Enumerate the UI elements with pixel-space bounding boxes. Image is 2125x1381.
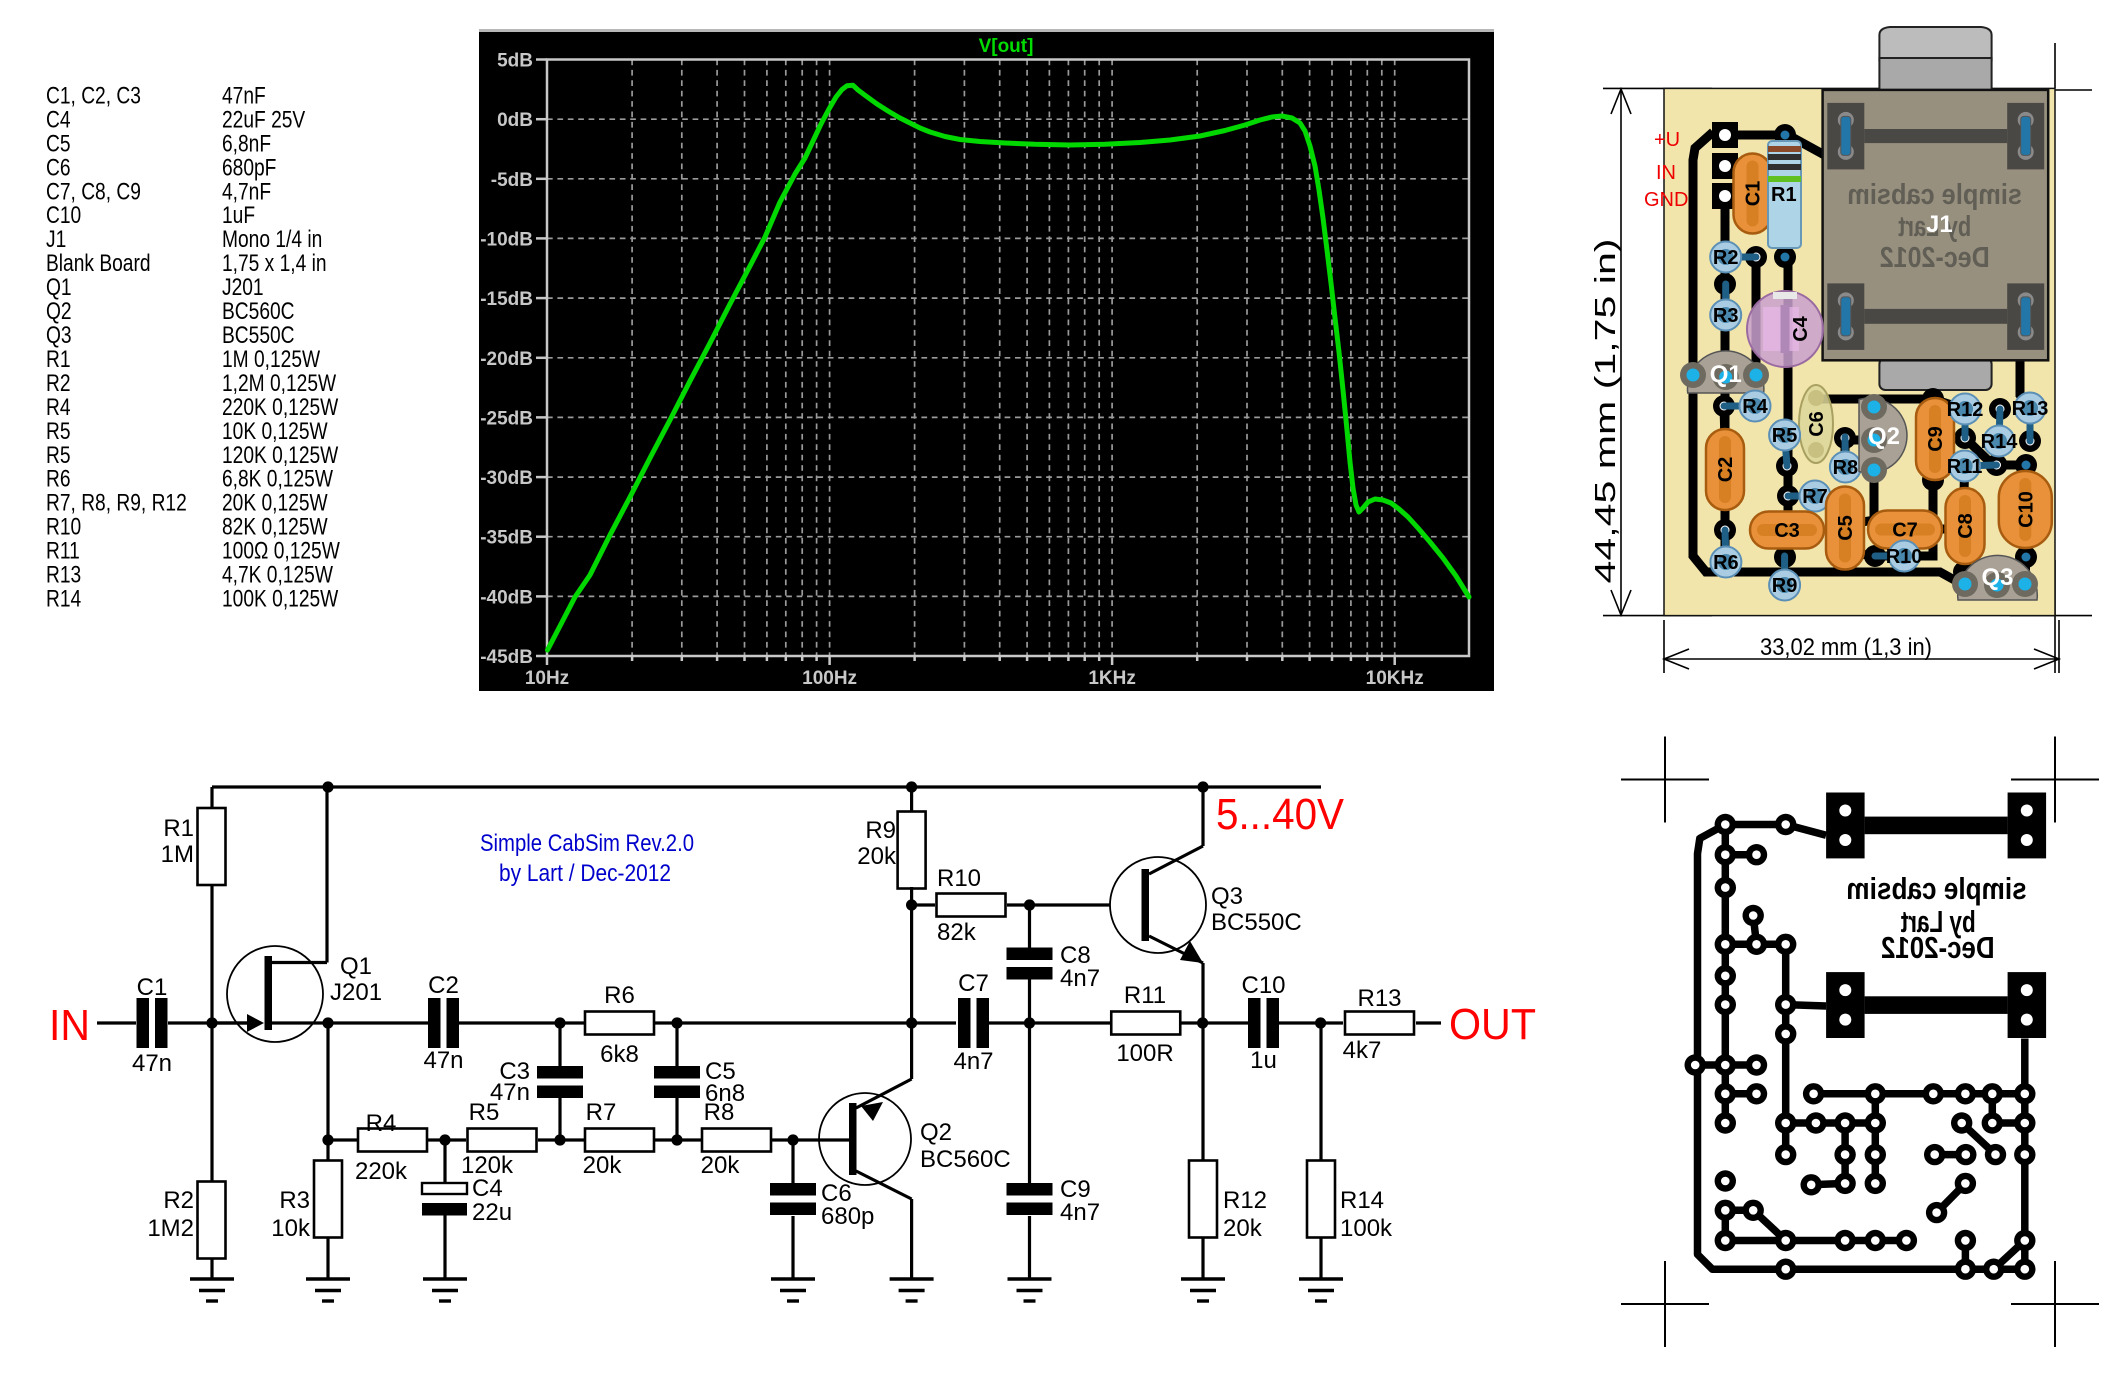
svg-text:R13: R13 (1357, 985, 1401, 1012)
svg-text:R7: R7 (586, 1099, 617, 1126)
svg-text:R12: R12 (1223, 1187, 1267, 1214)
svg-text:220k: 220k (355, 1158, 408, 1185)
svg-text:V[out]: V[out] (979, 36, 1034, 57)
svg-text:20k: 20k (701, 1152, 741, 1179)
svg-text:C7: C7 (958, 970, 989, 997)
svg-text:R5: R5 (1772, 425, 1798, 447)
svg-text:BC560C: BC560C (920, 1146, 1011, 1173)
svg-text:Q2: Q2 (1868, 423, 1900, 450)
svg-text:82k: 82k (937, 919, 977, 946)
svg-text:1u: 1u (1250, 1047, 1277, 1074)
svg-text:C8: C8 (1955, 513, 1977, 539)
svg-text:IN: IN (1656, 162, 1676, 184)
svg-text:100k: 100k (1340, 1215, 1393, 1242)
svg-text:Q1: Q1 (340, 953, 372, 980)
svg-text:OUT: OUT (1449, 1000, 1536, 1049)
svg-text:R10: R10 (1886, 546, 1923, 568)
svg-text:C3: C3 (1774, 520, 1800, 542)
svg-text:C2: C2 (1715, 457, 1737, 483)
svg-text:BC550C: BC550C (1211, 909, 1302, 936)
svg-text:C4: C4 (472, 1175, 503, 1202)
svg-text:R11: R11 (1947, 456, 1983, 478)
svg-text:C7: C7 (1892, 520, 1918, 542)
svg-text:6k8: 6k8 (600, 1041, 639, 1068)
svg-text:R3: R3 (279, 1187, 310, 1214)
svg-text:simple cabsim: simple cabsim (1846, 871, 2026, 906)
svg-text:by Lart / Dec-2012: by Lart / Dec-2012 (499, 860, 671, 887)
svg-text:R11: R11 (1124, 982, 1166, 1009)
svg-text:R8: R8 (704, 1099, 735, 1126)
svg-text:R4: R4 (1742, 396, 1768, 418)
svg-text:4n7: 4n7 (953, 1048, 993, 1075)
svg-text:1M2: 1M2 (147, 1215, 194, 1242)
svg-text:4n7: 4n7 (1060, 1199, 1100, 1226)
svg-text:R6: R6 (1713, 552, 1739, 574)
svg-text:Q3: Q3 (1981, 564, 2013, 591)
svg-text:-30dB: -30dB (480, 468, 533, 489)
svg-text:R3: R3 (1713, 305, 1739, 327)
svg-text:10Hz: 10Hz (525, 668, 569, 689)
svg-text:simple cabsim: simple cabsim (1847, 179, 2022, 211)
svg-text:Dec-2012: Dec-2012 (1881, 930, 1995, 965)
svg-text:C4: C4 (1790, 315, 1812, 341)
svg-text:-35dB: -35dB (480, 528, 533, 549)
svg-text:R8: R8 (1833, 457, 1859, 479)
svg-text:100R: 100R (1116, 1040, 1173, 1067)
svg-text:Q1: Q1 (1710, 361, 1742, 388)
svg-text:R14: R14 (1340, 1187, 1384, 1214)
svg-text:4n7: 4n7 (1060, 965, 1100, 992)
svg-text:1M: 1M (161, 841, 194, 868)
svg-text:C1: C1 (1743, 181, 1765, 207)
svg-text:R13: R13 (2012, 398, 2049, 420)
svg-text:20k: 20k (857, 843, 897, 870)
svg-text:680p: 680p (821, 1203, 874, 1230)
svg-text:1KHz: 1KHz (1088, 668, 1136, 689)
svg-text:R9: R9 (1772, 575, 1798, 597)
svg-text:C9: C9 (1925, 426, 1947, 452)
svg-text:J1: J1 (1926, 211, 1953, 238)
svg-text:J201: J201 (330, 979, 382, 1006)
svg-text:Q2: Q2 (920, 1119, 952, 1146)
svg-text:-25dB: -25dB (480, 408, 533, 429)
svg-text:R7: R7 (1802, 486, 1828, 508)
svg-text:Simple CabSim Rev.2.0: Simple CabSim Rev.2.0 (480, 830, 694, 857)
svg-text:47n: 47n (423, 1047, 463, 1074)
svg-text:20k: 20k (1223, 1215, 1263, 1242)
svg-text:R4: R4 (366, 1110, 397, 1137)
svg-text:100K 0,125W: 100K 0,125W (222, 584, 339, 612)
svg-text:C5: C5 (1835, 515, 1857, 541)
svg-text:C2: C2 (428, 972, 459, 999)
svg-text:R5: R5 (469, 1099, 500, 1126)
svg-text:47n: 47n (132, 1050, 172, 1077)
svg-text:44,45 mm (1,75 in): 44,45 mm (1,75 in) (1590, 239, 1622, 584)
svg-text:R14: R14 (46, 584, 81, 612)
svg-text:R14: R14 (1981, 431, 2019, 453)
svg-text:-15dB: -15dB (480, 289, 533, 310)
svg-text:-40dB: -40dB (480, 587, 533, 608)
svg-text:-20dB: -20dB (480, 349, 533, 370)
svg-text:100Hz: 100Hz (802, 668, 857, 689)
svg-text:R1: R1 (163, 815, 194, 842)
svg-text:-45dB: -45dB (480, 647, 533, 668)
svg-text:C10: C10 (1241, 972, 1285, 999)
svg-text:GND: GND (1644, 189, 1688, 211)
svg-text:20k: 20k (583, 1152, 623, 1179)
svg-text:R10: R10 (937, 865, 981, 892)
svg-text:5...40V: 5...40V (1216, 790, 1345, 839)
svg-text:R12: R12 (1947, 399, 1984, 421)
svg-text:10KHz: 10KHz (1366, 668, 1424, 689)
svg-text:5dB: 5dB (497, 51, 533, 72)
svg-text:Q3: Q3 (1211, 883, 1243, 910)
svg-text:33,02 mm (1,3 in): 33,02 mm (1,3 in) (1760, 634, 1932, 661)
svg-text:+U: +U (1654, 129, 1680, 151)
svg-text:-10dB: -10dB (480, 229, 533, 250)
svg-text:0dB: 0dB (497, 110, 533, 131)
svg-text:R2: R2 (163, 1187, 194, 1214)
svg-text:R2: R2 (1713, 247, 1739, 269)
svg-text:4k7: 4k7 (1343, 1037, 1382, 1064)
svg-text:C10: C10 (2015, 491, 2037, 528)
svg-text:R1: R1 (1771, 184, 1797, 206)
svg-text:R9: R9 (865, 817, 896, 844)
svg-text:C6: C6 (1806, 411, 1828, 437)
svg-text:-5dB: -5dB (491, 170, 533, 191)
svg-text:IN: IN (49, 1001, 90, 1050)
svg-text:10k: 10k (271, 1215, 311, 1242)
svg-text:R6: R6 (604, 982, 635, 1009)
svg-text:22u: 22u (472, 1199, 512, 1226)
svg-text:Dec-2012: Dec-2012 (1880, 242, 1990, 274)
svg-text:C1: C1 (137, 974, 168, 1001)
